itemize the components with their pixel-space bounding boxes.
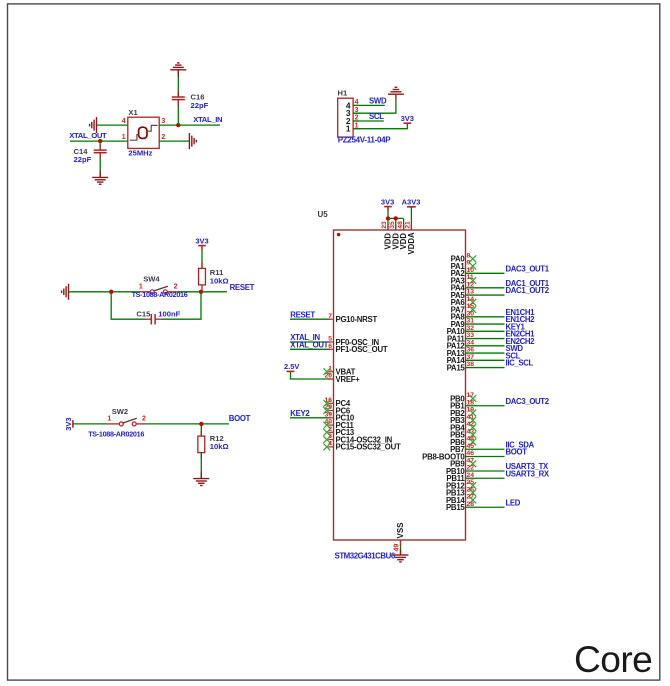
svg-text:3V3: 3V3 bbox=[381, 198, 394, 207]
svg-text:A3V3: A3V3 bbox=[402, 198, 421, 207]
svg-text:IIC_SCL: IIC_SCL bbox=[506, 359, 534, 368]
svg-text:BOOT: BOOT bbox=[506, 448, 528, 457]
svg-text:2: 2 bbox=[142, 416, 146, 423]
svg-text:VDDA: VDDA bbox=[407, 232, 416, 254]
svg-text:2.5V: 2.5V bbox=[284, 362, 299, 371]
svg-text:USART3_RX: USART3_RX bbox=[506, 469, 550, 478]
svg-text:DAC3_OUT2: DAC3_OUT2 bbox=[506, 397, 550, 406]
svg-text:2: 2 bbox=[161, 134, 165, 141]
svg-text:RESET: RESET bbox=[230, 283, 255, 292]
svg-text:3V3: 3V3 bbox=[401, 114, 414, 123]
svg-text:LED: LED bbox=[506, 498, 521, 507]
svg-text:1: 1 bbox=[122, 134, 126, 141]
svg-text:SW4: SW4 bbox=[143, 275, 160, 284]
svg-text:100nF: 100nF bbox=[158, 310, 180, 319]
svg-text:H1: H1 bbox=[338, 89, 348, 98]
svg-text:U5: U5 bbox=[318, 210, 329, 219]
svg-text:C15: C15 bbox=[136, 310, 151, 319]
svg-text:SCL: SCL bbox=[369, 112, 384, 121]
svg-text:XTAL_IN: XTAL_IN bbox=[193, 115, 223, 124]
svg-text:TS-1088-AR02016: TS-1088-AR02016 bbox=[132, 290, 188, 299]
svg-text:VREF+: VREF+ bbox=[336, 375, 361, 384]
svg-text:PC15-OSC32_OUT: PC15-OSC32_OUT bbox=[336, 443, 401, 452]
svg-text:XTAL_OUT: XTAL_OUT bbox=[290, 340, 328, 349]
svg-text:Core: Core bbox=[574, 638, 652, 680]
svg-text:4: 4 bbox=[122, 118, 126, 125]
svg-text:VSS: VSS bbox=[396, 522, 405, 539]
svg-text:SW2: SW2 bbox=[112, 407, 128, 416]
svg-text:DAC3_OUT1: DAC3_OUT1 bbox=[506, 264, 550, 273]
svg-text:22pF: 22pF bbox=[191, 101, 209, 110]
svg-text:3V3: 3V3 bbox=[64, 417, 73, 430]
svg-text:22pF: 22pF bbox=[74, 155, 92, 164]
svg-text:PF1-OSC_OUT: PF1-OSC_OUT bbox=[336, 345, 388, 354]
svg-text:21: 21 bbox=[405, 221, 412, 229]
svg-text:1: 1 bbox=[107, 416, 111, 423]
svg-text:PB15: PB15 bbox=[446, 503, 465, 512]
svg-text:35: 35 bbox=[389, 221, 396, 229]
svg-text:PA15: PA15 bbox=[447, 363, 466, 372]
svg-text:SWD: SWD bbox=[369, 97, 387, 106]
svg-text:TS-1088-AR02016: TS-1088-AR02016 bbox=[88, 430, 144, 439]
svg-text:RESET: RESET bbox=[290, 310, 315, 319]
svg-text:48: 48 bbox=[397, 221, 404, 229]
svg-text:23: 23 bbox=[381, 221, 388, 229]
svg-text:49: 49 bbox=[394, 544, 401, 552]
svg-text:STM32G431CBU6: STM32G431CBU6 bbox=[335, 552, 396, 561]
svg-text:XTAL_OUT: XTAL_OUT bbox=[69, 131, 107, 140]
svg-text:3V3: 3V3 bbox=[195, 236, 208, 245]
svg-text:25MHz: 25MHz bbox=[128, 148, 152, 157]
svg-text:10kΩ: 10kΩ bbox=[210, 277, 229, 286]
svg-text:KEY2: KEY2 bbox=[290, 409, 310, 418]
svg-text:1: 1 bbox=[346, 124, 351, 134]
svg-text:3: 3 bbox=[161, 118, 165, 125]
svg-text:10kΩ: 10kΩ bbox=[210, 442, 229, 451]
svg-text:BOOT: BOOT bbox=[229, 414, 251, 423]
svg-text:DAC1_OUT2: DAC1_OUT2 bbox=[506, 286, 550, 295]
svg-text:PG10-NRST: PG10-NRST bbox=[336, 315, 378, 324]
svg-text:X1: X1 bbox=[128, 108, 138, 117]
svg-text:PZ254V-11-04P: PZ254V-11-04P bbox=[338, 135, 392, 144]
